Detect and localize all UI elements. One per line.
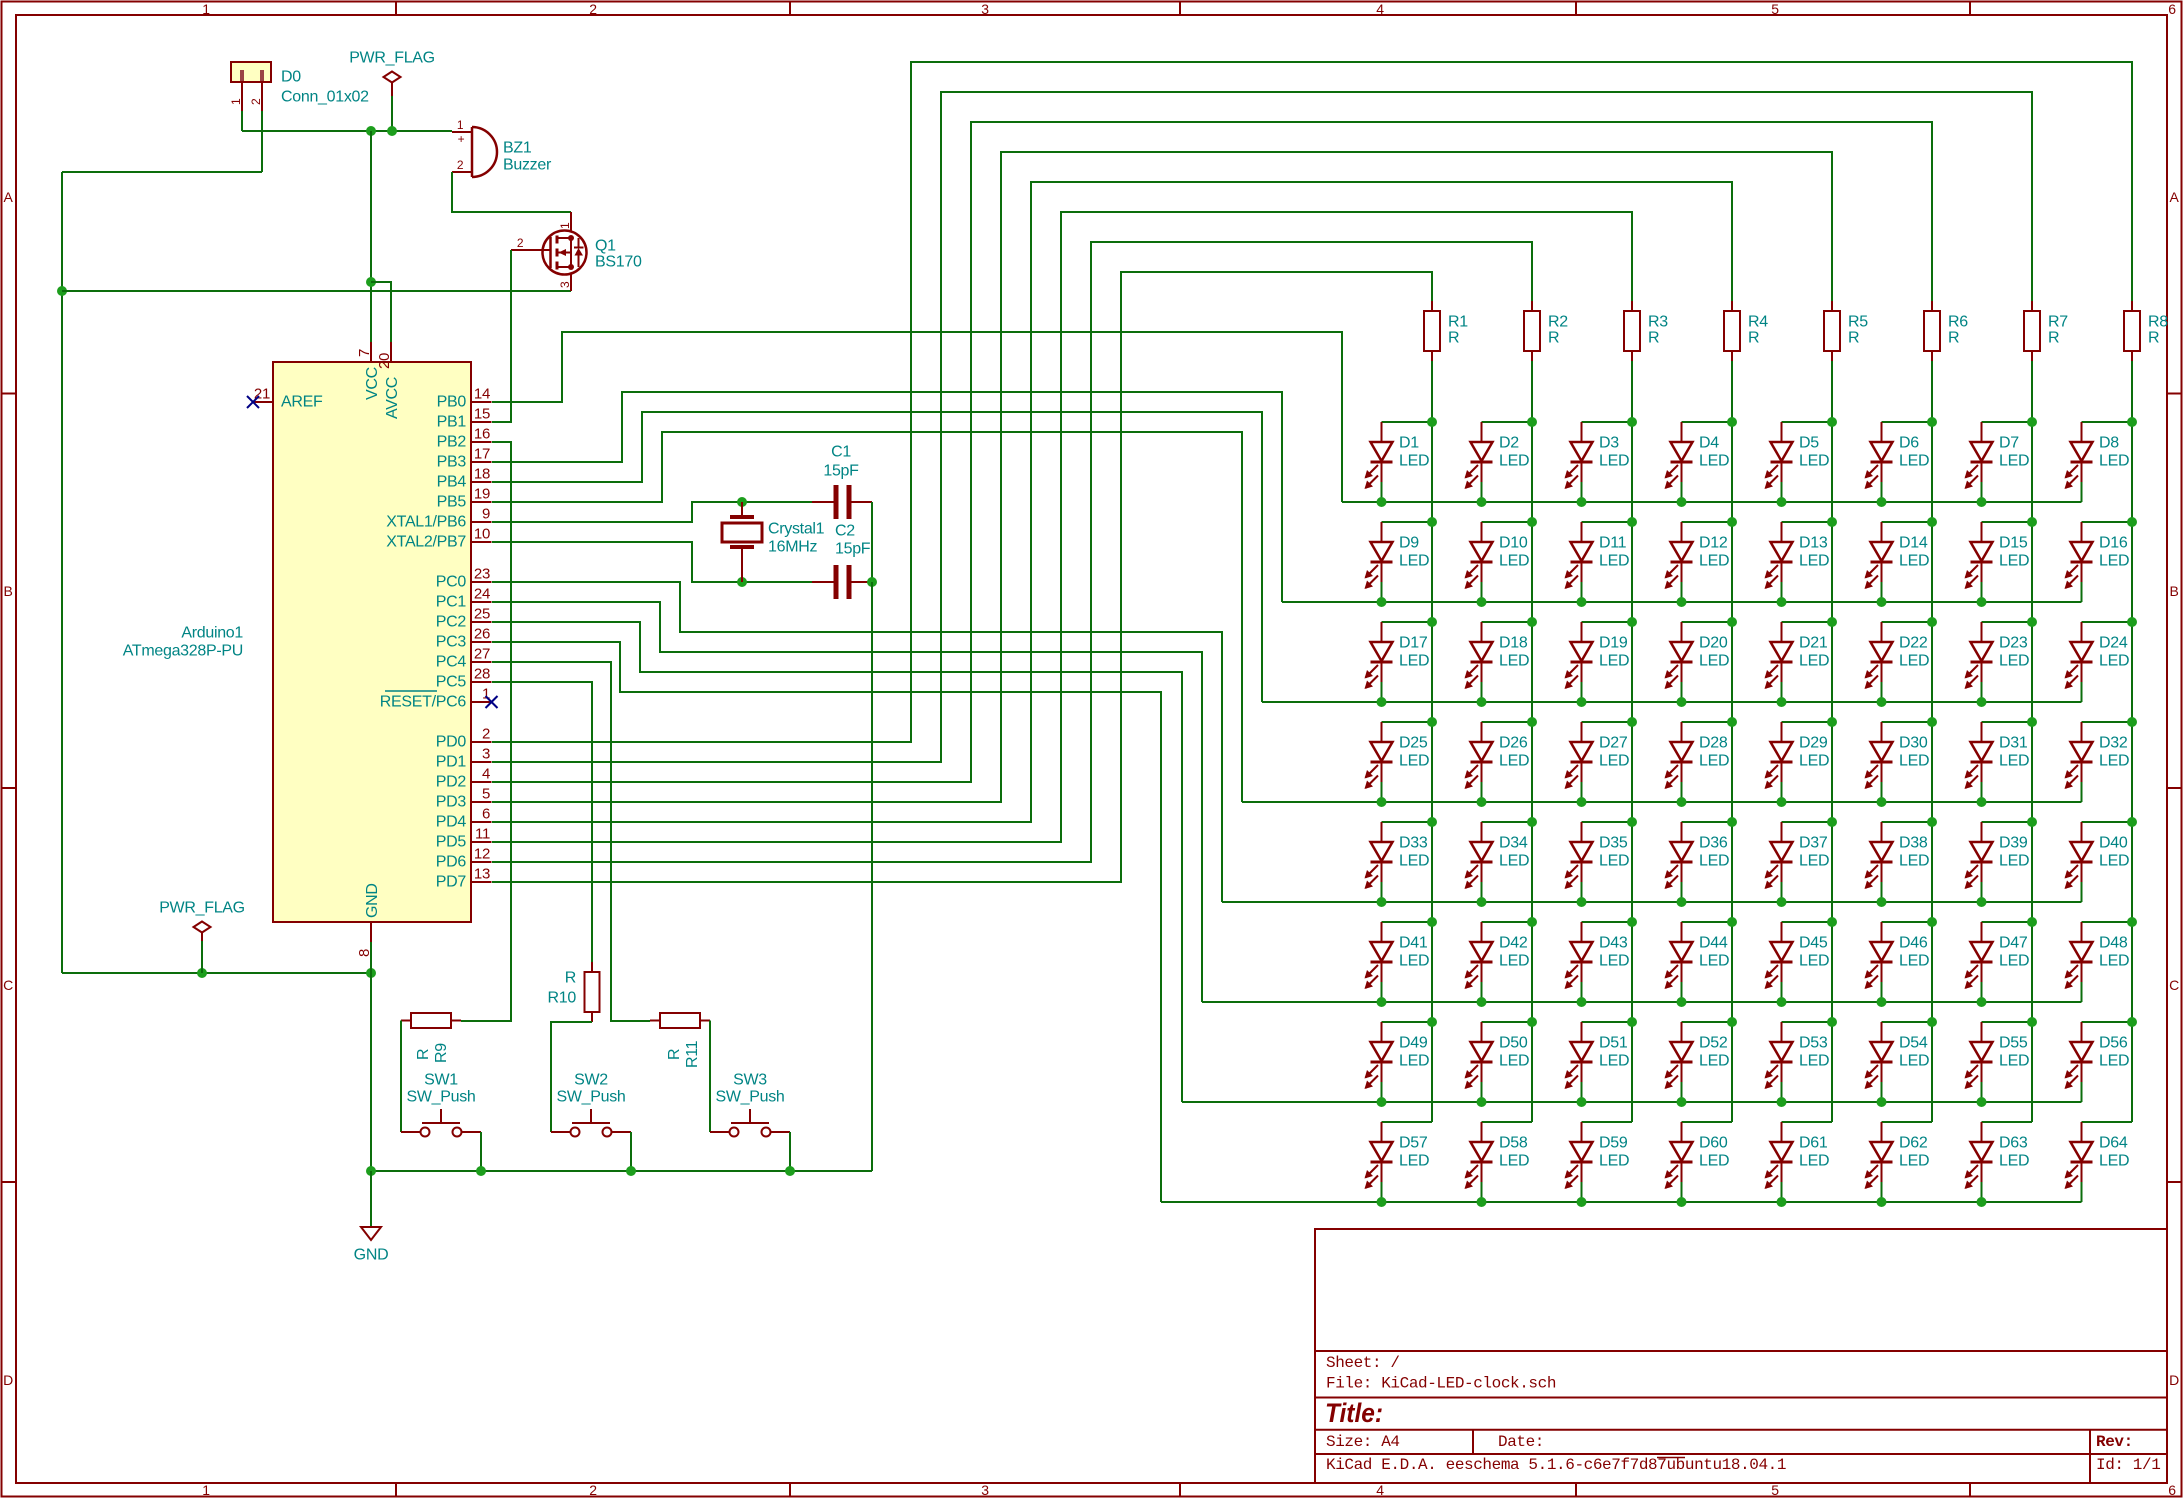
wire column 8 anode vertical [2131, 361, 2133, 1122]
junction column 5 row 7 [1827, 1017, 1837, 1027]
junction crystal top [737, 497, 747, 507]
IC pin 11 PD5 [436, 826, 492, 851]
LED D4 [1665, 422, 1733, 502]
junction column 6 row 7 [1927, 1017, 1937, 1027]
sheet frame column ticks bottom [396, 1483, 1970, 1496]
svg-text:3: 3 [558, 281, 572, 288]
junction row 5 bus col 7 [1977, 897, 1987, 907]
svg-text:LED: LED [1699, 1053, 1729, 1070]
junction row 4 bus col 3 [1577, 797, 1587, 807]
svg-text:16: 16 [474, 426, 490, 443]
svg-text:RESET/PC6: RESET/PC6 [380, 694, 467, 711]
svg-text:D8: D8 [2099, 435, 2119, 452]
wire D0 pin1 to VCC rail [241, 111, 243, 131]
junction VCC AVCC branch [366, 277, 376, 287]
junction C2 right [867, 577, 877, 587]
LED D52 [1665, 1022, 1733, 1102]
svg-text:D42: D42 [1499, 935, 1528, 952]
wire PB0 to LED row 1 [492, 332, 1342, 502]
svg-text:PD5: PD5 [436, 834, 467, 851]
wire PB3 to LED row 2 [492, 392, 1282, 602]
LED D27 [1565, 722, 1633, 802]
junction VCC at PWR_FLAG [387, 126, 397, 136]
LED D47 [1965, 922, 2033, 1002]
wire D0 pin2 down [261, 111, 263, 172]
svg-text:28: 28 [474, 666, 490, 683]
svg-text:LED: LED [1499, 553, 1529, 570]
svg-text:D17: D17 [1399, 635, 1428, 652]
svg-text:LED: LED [2099, 953, 2129, 970]
svg-text:D51: D51 [1599, 1035, 1628, 1052]
svg-text:R: R [565, 970, 576, 987]
svg-text:LED: LED [1999, 653, 2029, 670]
junction row 1 bus col 1 [1377, 497, 1387, 507]
wire ground rail [371, 1170, 872, 1172]
svg-text:R: R [2048, 330, 2059, 347]
svg-text:D20: D20 [1699, 635, 1728, 652]
svg-text:LED: LED [1599, 1153, 1629, 1170]
LED D15 [1965, 522, 2033, 602]
svg-text:D7: D7 [1999, 435, 2019, 452]
resistor R10 [548, 962, 600, 1022]
svg-text:C1: C1 [831, 444, 851, 461]
svg-text:D56: D56 [2099, 1035, 2128, 1052]
LED D11 [1565, 522, 1633, 602]
wire PD1 to column resistor R7 [492, 92, 2032, 762]
svg-text:6: 6 [2168, 1, 2176, 17]
IC pin 5 PD3 [436, 786, 492, 811]
svg-text:LED: LED [1499, 453, 1529, 470]
wire PC5 to R10 [492, 682, 592, 962]
wire left GND rail vertical [61, 172, 63, 973]
junction column 1 row 3 [1427, 617, 1437, 627]
LED D45 [1765, 922, 1833, 1002]
svg-text:R3: R3 [1648, 314, 1668, 331]
svg-text:D26: D26 [1499, 735, 1528, 752]
junction column 1 row 4 [1427, 717, 1437, 727]
svg-text:25: 25 [474, 606, 490, 623]
junction row 1 bus col 3 [1577, 497, 1587, 507]
LED D42 [1465, 922, 1533, 1002]
svg-text:D38: D38 [1899, 835, 1928, 852]
svg-text:D46: D46 [1899, 935, 1928, 952]
wire Q1 gate to PB1 [492, 250, 511, 422]
wire SW1 to ground rail [480, 1132, 482, 1171]
IC pin 14 PB0 [437, 386, 492, 411]
junction row 7 bus col 7 [1977, 1097, 1987, 1107]
junction column 2 row 1 [1527, 417, 1537, 427]
svg-text:PWR_FLAG: PWR_FLAG [159, 900, 245, 917]
title block outline [1315, 1229, 2167, 1483]
wire column 7 anode vertical [2031, 361, 2033, 1122]
LED D29 [1765, 722, 1833, 802]
wire VCC drop to IC [370, 131, 372, 342]
svg-text:9: 9 [482, 506, 490, 523]
svg-text:LED: LED [1399, 553, 1429, 570]
svg-text:D49: D49 [1399, 1035, 1428, 1052]
svg-text:18: 18 [474, 466, 490, 483]
svg-text:LED: LED [1399, 853, 1429, 870]
junction column 8 row 1 [2127, 417, 2137, 427]
svg-text:D36: D36 [1699, 835, 1728, 852]
wire AVCC jog [371, 282, 391, 342]
svg-text:LED: LED [1599, 953, 1629, 970]
svg-text:R8: R8 [2148, 314, 2168, 331]
junction row 8 bus col 7 [1977, 1197, 1987, 1207]
svg-text:PC0: PC0 [436, 574, 467, 591]
junction row 3 bus col 3 [1577, 697, 1587, 707]
svg-text:LED: LED [1699, 653, 1729, 670]
IC pin 28 PC5 [436, 666, 492, 691]
junction column 5 row 2 [1827, 517, 1837, 527]
svg-text:LED: LED [1699, 1153, 1729, 1170]
wire IC GND pin to rail [370, 942, 372, 1171]
svg-text:ATmega328P-PU: ATmega328P-PU [123, 643, 243, 660]
junction row 1 bus col 7 [1977, 497, 1987, 507]
svg-text:D13: D13 [1799, 535, 1828, 552]
svg-text:R: R [666, 1049, 683, 1060]
IC pin 8 GND [356, 883, 381, 957]
junction column 7 row 6 [2027, 917, 2037, 927]
junction column 4 row 2 [1727, 517, 1737, 527]
junction row 2 bus col 6 [1877, 597, 1887, 607]
junction column 3 row 4 [1627, 717, 1637, 727]
svg-text:Rev:: Rev: [2096, 1433, 2133, 1451]
svg-text:14: 14 [474, 386, 490, 403]
svg-text:15pF: 15pF [835, 541, 871, 558]
junction column 2 row 7 [1527, 1017, 1537, 1027]
wire XTAL2 to crystal [492, 542, 742, 582]
wire column 6 anode vertical [1931, 361, 1933, 1122]
wire crystal bottom rail to C2 [742, 581, 812, 583]
wire SW3 to ground rail [789, 1132, 791, 1171]
svg-text:LED: LED [1899, 1153, 1929, 1170]
svg-text:LED: LED [1699, 953, 1729, 970]
svg-text:LED: LED [1699, 453, 1729, 470]
junction row 3 bus col 5 [1777, 697, 1787, 707]
wire Q1 source to left rail [62, 290, 571, 292]
svg-text:D63: D63 [1999, 1135, 2028, 1152]
svg-text:D32: D32 [2099, 735, 2128, 752]
buzzer BZ1 [452, 118, 552, 177]
svg-text:LED: LED [1499, 1153, 1529, 1170]
svg-text:LED: LED [1599, 1053, 1629, 1070]
wire column 2 anode vertical [1531, 361, 1533, 1122]
svg-text:17: 17 [474, 446, 490, 463]
svg-text:D4: D4 [1699, 435, 1719, 452]
svg-text:LED: LED [1499, 853, 1529, 870]
junction column 3 row 5 [1627, 817, 1637, 827]
wire LED row 6 cathode bus [1202, 1001, 2082, 1003]
LED D9 [1365, 522, 1433, 602]
svg-text:6: 6 [2168, 1482, 2176, 1498]
svg-text:D43: D43 [1599, 935, 1628, 952]
junction column 4 row 1 [1727, 417, 1737, 427]
connector D0 Conn_01x02 [229, 62, 369, 111]
LED D10 [1465, 522, 1533, 602]
svg-text:BS170: BS170 [595, 254, 642, 271]
svg-text:R10: R10 [548, 990, 577, 1007]
svg-text:SW2: SW2 [574, 1072, 608, 1089]
junction row 6 bus col 6 [1877, 997, 1887, 1007]
junction column 1 row 6 [1427, 917, 1437, 927]
junction row 7 bus col 3 [1577, 1097, 1587, 1107]
svg-text:2: 2 [457, 158, 464, 172]
junction ground rail SW1 [476, 1166, 486, 1176]
junction column 5 row 3 [1827, 617, 1837, 627]
junction row 7 bus col 1 [1377, 1097, 1387, 1107]
svg-text:2: 2 [249, 98, 263, 105]
wire LED row 5 cathode bus [1222, 901, 2082, 903]
svg-text:D: D [3, 1372, 13, 1388]
sheet frame row ticks right [2167, 394, 2181, 1183]
svg-text:1: 1 [202, 1482, 210, 1498]
svg-text:C2: C2 [835, 523, 855, 540]
junction row 8 bus col 1 [1377, 1197, 1387, 1207]
LED D40 [2065, 822, 2133, 902]
wire LED row 1 cathode bus [1342, 501, 2082, 503]
resistor R6 [1924, 301, 1968, 361]
junction column 6 row 3 [1927, 617, 1937, 627]
svg-text:AREF: AREF [281, 394, 323, 411]
junction row 4 bus col 4 [1677, 797, 1687, 807]
svg-text:R: R [1548, 330, 1559, 347]
svg-text:LED: LED [1799, 1153, 1829, 1170]
LED D31 [1965, 722, 2033, 802]
svg-text:D15: D15 [1999, 535, 2028, 552]
svg-text:PD1: PD1 [436, 754, 467, 771]
wire LED row 8 cathode bus [1161, 1201, 2082, 1203]
junction row 8 bus col 4 [1677, 1197, 1687, 1207]
svg-text:LED: LED [1399, 1053, 1429, 1070]
resistor R2 [1524, 301, 1568, 361]
svg-text:LED: LED [1899, 653, 1929, 670]
LED D37 [1765, 822, 1833, 902]
wire buzzer pin2 to Q1 drain [452, 172, 571, 212]
junction row 6 bus col 3 [1577, 997, 1587, 1007]
svg-text:LED: LED [1999, 453, 2029, 470]
sheet frame column ticks top [396, 2, 1970, 15]
svg-text:B: B [2169, 583, 2178, 599]
svg-text:D5: D5 [1799, 435, 1819, 452]
LED D57 [1365, 1122, 1433, 1202]
svg-text:PC1: PC1 [436, 594, 467, 611]
svg-text:LED: LED [1899, 553, 1929, 570]
svg-text:1: 1 [558, 222, 572, 229]
svg-text:LED: LED [1599, 853, 1629, 870]
svg-text:D9: D9 [1399, 535, 1419, 552]
svg-text:LED: LED [1399, 1153, 1429, 1170]
svg-text:C: C [3, 977, 13, 993]
junction row 5 bus col 2 [1477, 897, 1487, 907]
svg-text:D45: D45 [1799, 935, 1828, 952]
svg-text:D55: D55 [1999, 1035, 2028, 1052]
junction ground rail SW2 [626, 1166, 636, 1176]
junction row 7 bus col 5 [1777, 1097, 1787, 1107]
junction column 8 row 7 [2127, 1017, 2137, 1027]
junction row 7 bus col 6 [1877, 1097, 1887, 1107]
junction ground rail SW3 [785, 1166, 795, 1176]
wire PD4 to column resistor R4 [492, 182, 1732, 822]
svg-text:PB4: PB4 [437, 474, 467, 491]
IC pin 2 PD0 [436, 726, 492, 751]
svg-text:R9: R9 [433, 1043, 450, 1063]
svg-text:PC4: PC4 [436, 654, 467, 671]
svg-text:LED: LED [1899, 453, 1929, 470]
junction row 6 bus col 2 [1477, 997, 1487, 1007]
LED D61 [1765, 1122, 1833, 1202]
svg-text:LED: LED [1899, 1053, 1929, 1070]
wire R11 to SW3 [709, 1021, 711, 1133]
IC pin 4 PD2 [436, 766, 492, 791]
svg-text:BZ1: BZ1 [503, 140, 532, 157]
junction column 8 row 5 [2127, 817, 2137, 827]
svg-text:D52: D52 [1699, 1035, 1728, 1052]
svg-text:LED: LED [1599, 453, 1629, 470]
junction row 5 bus col 1 [1377, 897, 1387, 907]
svg-text:D1: D1 [1399, 435, 1419, 452]
svg-text:R: R [2148, 330, 2159, 347]
svg-text:LED: LED [2099, 753, 2129, 770]
svg-text:R: R [1748, 330, 1759, 347]
LED D48 [2065, 922, 2133, 1002]
svg-text:1: 1 [229, 98, 243, 105]
wire PC3 to LED row 8 [492, 642, 1161, 1202]
junction column 1 row 1 [1427, 417, 1437, 427]
svg-text:D22: D22 [1899, 635, 1928, 652]
svg-text:SW_Push: SW_Push [556, 1089, 625, 1106]
LED D54 [1865, 1022, 1933, 1102]
svg-text:LED: LED [1399, 453, 1429, 470]
svg-text:PD3: PD3 [436, 794, 467, 811]
svg-text:11: 11 [475, 826, 490, 843]
svg-text:5: 5 [1771, 1482, 1779, 1498]
svg-text:7: 7 [356, 349, 373, 357]
svg-text:D41: D41 [1399, 935, 1428, 952]
junction row 8 bus col 3 [1577, 1197, 1587, 1207]
svg-text:LED: LED [2099, 853, 2129, 870]
junction column 3 row 6 [1627, 917, 1637, 927]
svg-text:1: 1 [457, 118, 464, 132]
wire crystal top rail to C1 [742, 501, 812, 503]
junction row 2 bus col 3 [1577, 597, 1587, 607]
wire LED row 3 cathode bus [1262, 701, 2082, 703]
ground symbol GND [354, 1171, 389, 1264]
svg-text:PWR_FLAG: PWR_FLAG [349, 50, 435, 67]
svg-text:LED: LED [1999, 853, 2029, 870]
svg-text:File: KiCad-LED-clock.sch: File: KiCad-LED-clock.sch [1326, 1375, 1556, 1393]
svg-text:LED: LED [1999, 753, 2029, 770]
LED D43 [1565, 922, 1633, 1002]
wire PC4 to R11 [492, 662, 650, 1021]
svg-text:10: 10 [474, 526, 490, 543]
junction row 4 bus col 2 [1477, 797, 1487, 807]
junction column 8 row 3 [2127, 617, 2137, 627]
svg-text:2: 2 [517, 236, 524, 250]
svg-text:20: 20 [376, 353, 393, 369]
IC pin 12 PD6 [436, 846, 492, 871]
IC pin 13 PD7 [436, 866, 492, 891]
svg-text:LED: LED [1799, 953, 1829, 970]
capacitor C1 15pF [812, 444, 872, 520]
svg-text:LED: LED [1699, 553, 1729, 570]
svg-text:26: 26 [474, 626, 490, 643]
LED D17 [1365, 622, 1433, 702]
svg-text:R11: R11 [684, 1040, 701, 1068]
svg-text:PD2: PD2 [436, 774, 467, 791]
svg-text:D0: D0 [281, 69, 301, 86]
svg-text:D35: D35 [1599, 835, 1628, 852]
svg-text:LED: LED [1599, 653, 1629, 670]
junction row 7 bus col 2 [1477, 1097, 1487, 1107]
junction row 4 bus col 7 [1977, 797, 1987, 807]
junction row 3 bus col 7 [1977, 697, 1987, 707]
svg-text:R4: R4 [1748, 314, 1768, 331]
svg-text:3: 3 [981, 1, 989, 17]
junction row 2 bus col 7 [1977, 597, 1987, 607]
power flag PWR_FLAG top [349, 50, 435, 97]
IC pin 3 PD1 [436, 746, 492, 771]
svg-text:12: 12 [474, 846, 490, 863]
junction column 5 row 6 [1827, 917, 1837, 927]
svg-text:D60: D60 [1699, 1135, 1728, 1152]
svg-text:5: 5 [1771, 1, 1779, 17]
LED D30 [1865, 722, 1933, 802]
junction column 1 row 7 [1427, 1017, 1437, 1027]
wire PC2 to LED row 7 [492, 622, 1182, 1102]
junction column 8 row 4 [2127, 717, 2137, 727]
wire R10 to SW2 [551, 1022, 592, 1132]
svg-text:LED: LED [1999, 953, 2029, 970]
svg-text:D31: D31 [1999, 735, 2028, 752]
svg-text:D59: D59 [1599, 1135, 1628, 1152]
svg-text:D37: D37 [1799, 835, 1828, 852]
switch SW1 SW_Push [401, 1072, 481, 1137]
LED D58 [1465, 1122, 1533, 1202]
svg-text:27: 27 [474, 646, 490, 663]
LED D62 [1865, 1122, 1933, 1202]
junction column 6 row 2 [1927, 517, 1937, 527]
svg-text:D16: D16 [2099, 535, 2128, 552]
wire LED row 4 cathode bus [1242, 801, 2082, 803]
junction column 6 row 5 [1927, 817, 1937, 827]
svg-text:XTAL1/PB6: XTAL1/PB6 [386, 514, 466, 531]
svg-text:LED: LED [1499, 1053, 1529, 1070]
svg-text:LED: LED [2099, 1153, 2129, 1170]
junction row 8 bus col 2 [1477, 1197, 1487, 1207]
LED D56 [2065, 1022, 2133, 1102]
crystal Crystal1 16MHz [722, 502, 825, 582]
wire PD0 to column resistor R8 [492, 62, 2132, 742]
svg-text:LED: LED [1499, 753, 1529, 770]
junction column 7 row 2 [2027, 517, 2037, 527]
svg-text:D18: D18 [1499, 635, 1528, 652]
IC pin 26 PC3 [436, 626, 492, 651]
wire D0 pin2 to left rail [62, 171, 262, 173]
resistor R5 [1824, 301, 1868, 361]
svg-text:Sheet: /: Sheet: / [1326, 1354, 1400, 1372]
wire PB2 to R9 [461, 442, 511, 1021]
svg-text:D28: D28 [1699, 735, 1728, 752]
IC pin 24 PC1 [436, 586, 492, 611]
LED D23 [1965, 622, 2033, 702]
svg-text:D21: D21 [1799, 635, 1828, 652]
svg-text:LED: LED [1999, 553, 2029, 570]
junction column 7 row 4 [2027, 717, 2037, 727]
junction row 1 bus col 6 [1877, 497, 1887, 507]
junction column 6 row 4 [1927, 717, 1937, 727]
svg-text:2: 2 [589, 1, 597, 17]
